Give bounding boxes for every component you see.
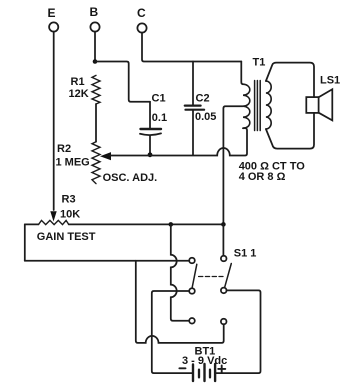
wire C to C2 top [142,33,241,62]
wire CT node to S1 upper-right contact [222,224,224,255]
svg-text:C: C [137,6,146,20]
svg-text:R3: R3 [62,194,76,206]
wire wiper to T1 (hop over CT line) [110,128,247,155]
S1 contact left-bottom [189,318,195,324]
R3 wiper arrow [50,211,56,221]
wire secondary top to speaker loop [266,63,314,98]
wire secondary bottom to speaker loop [266,113,314,149]
svg-text:1 MEG: 1 MEG [56,157,90,169]
terminal E [49,22,58,31]
S1 contact right-bottom [221,319,227,325]
S1 left lever [192,264,197,287]
svg-text:R2: R2 [57,143,71,155]
wire battery minus to S1 left-middle [152,291,192,373]
battery plus sign [218,365,225,372]
T1 primary coil [241,62,243,85]
svg-text:GAIN TEST: GAIN TEST [37,231,96,243]
svg-text:12K: 12K [69,88,89,100]
T1 center tap lead [223,106,243,224]
node B junction [93,59,98,64]
resistor R3 [39,220,69,224]
capacitor C1 [149,102,151,128]
battery minus sign [179,367,185,369]
gain test loop top edge [25,223,224,225]
svg-text:10K: 10K [60,208,80,220]
svg-text:C1: C1 [152,93,166,105]
S1 contact right-middle [221,288,227,294]
S1 contact left-top [189,258,195,264]
S1 contact left-middle [189,288,195,294]
resistor R1 [92,75,100,104]
wire E vertical [53,32,55,210]
svg-text:R1: R1 [71,76,85,88]
svg-text:S1 1: S1 1 [234,248,257,260]
S1 linkage dashed [199,276,223,278]
capacitor C2 [192,62,194,105]
wire R1 to R2 [95,104,97,142]
S1 contact right-top [221,256,227,262]
svg-text:4 OR 8 Ω: 4 OR 8 Ω [239,171,286,183]
svg-text:0.1: 0.1 [152,112,167,124]
wire S1 right-middle to battery plus [216,290,260,373]
gain test loop left edge [24,224,26,260]
wire B to C1 top [95,62,150,102]
potentiometer R2 [92,142,100,184]
svg-text:3 - 9 Vdc: 3 - 9 Vdc [182,355,227,367]
terminal C [137,23,146,32]
S1 right lever [225,264,232,288]
svg-text:LS1: LS1 [320,75,340,87]
T1 secondary coil [266,81,271,129]
wire S1 right-bottom to gain-test bottom edge (hop over battery wire) [136,261,224,343]
svg-text:E: E [48,6,56,20]
R2 wiper arrow [100,152,111,160]
terminal B [90,22,99,31]
T1 core [255,81,261,131]
gain test loop bottom edge [25,260,189,262]
svg-text:T1: T1 [253,57,266,69]
node C1-wiper junction [148,152,153,157]
svg-text:OSC. ADJ.: OSC. ADJ. [103,172,158,184]
svg-text:B: B [90,5,99,19]
speaker LS1 [306,97,318,113]
wire B vertical [94,32,96,62]
node top edge / S1 left feed [169,222,174,227]
wire top edge down to S1 lower-left contact (two hops) [171,224,189,320]
svg-text:C2: C2 [196,93,210,105]
svg-text:0.05: 0.05 [195,111,216,123]
node top edge / CT [221,222,226,227]
battery BT1 plates [192,365,194,382]
